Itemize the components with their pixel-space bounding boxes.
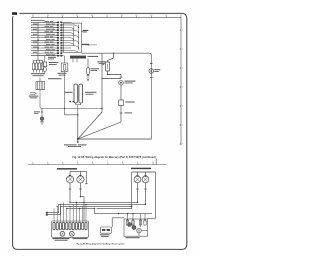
wire	[31, 34, 57, 36]
pin drop wire	[82, 206, 84, 222]
diagonal tie wire	[75, 51, 79, 53]
label	[100, 234, 110, 235]
diagonal tie wire	[71, 38, 74, 39]
svg-text:14: 14	[62, 15, 64, 17]
fuse link feed	[112, 218, 124, 227]
svg-text:9: 9	[137, 162, 138, 164]
svg-text:2: 2	[182, 49, 183, 51]
terminal nubs	[69, 175, 71, 177]
wire	[31, 21, 57, 23]
junction dot	[77, 138, 79, 140]
svg-text:20: 20	[150, 15, 152, 17]
wire	[76, 103, 81, 115]
label dimmer switch	[73, 238, 88, 239]
switch wiper	[137, 228, 142, 233]
wire drops	[137, 183, 139, 203]
svg-text:3: 3	[47, 162, 48, 164]
wires below bank	[33, 70, 35, 73]
wire	[62, 24, 74, 26]
wire code label	[46, 43, 51, 46]
pin drop wire	[69, 206, 71, 222]
wire	[62, 42, 71, 44]
connector pin pair	[57, 55, 59, 57]
connector body box	[64, 23, 82, 52]
pin drop wire	[66, 208, 68, 222]
wire	[62, 27, 71, 29]
bus wire 4	[66, 207, 95, 209]
junction dot	[37, 40, 39, 42]
RH headlamp label	[131, 168, 151, 169]
connector ticks	[69, 188, 72, 190]
wire	[62, 29, 74, 31]
wire	[39, 90, 41, 96]
wire to seat assembly	[31, 55, 64, 57]
loop wire	[102, 78, 122, 80]
wire code label	[45, 41, 50, 44]
feed wire exit with arrow	[82, 44, 98, 46]
svg-text:2: 2	[32, 162, 33, 164]
switch box S2	[119, 100, 124, 106]
headlamp switch box	[124, 219, 148, 236]
svg-text:4: 4	[62, 162, 63, 164]
relay feed	[108, 53, 114, 62]
svg-text:5: 5	[182, 106, 183, 108]
inner bus vertical	[78, 25, 80, 51]
diagonal tie wire	[75, 30, 79, 32]
diagonal tie wire	[71, 33, 74, 34]
arrow terminal	[87, 79, 89, 81]
bottom column ruler	[28, 159, 166, 165]
wire	[31, 37, 57, 39]
terminal pins	[126, 220, 128, 225]
arrow terminal	[77, 141, 79, 143]
wire	[62, 44, 74, 46]
connector pin pair	[57, 24, 59, 26]
switch terminal pin	[66, 222, 68, 229]
connector tick	[150, 77, 153, 79]
contact rotor R1	[60, 231, 65, 236]
connector pin pair	[57, 47, 59, 49]
pin drop wire	[63, 202, 65, 222]
junction dot	[64, 108, 65, 109]
wire	[62, 50, 74, 52]
wire	[31, 50, 57, 52]
label turn signal switch	[53, 238, 70, 239]
wire	[31, 39, 57, 41]
svg-text:7: 7	[107, 162, 108, 164]
wire	[87, 74, 89, 79]
connector pin pair	[57, 42, 59, 44]
wire code label	[45, 20, 50, 23]
diagonal tie wire	[71, 43, 74, 44]
junction dot	[113, 53, 114, 54]
ground label	[64, 144, 77, 145]
contact rotor R2	[69, 231, 74, 236]
pin drop wire	[56, 206, 58, 222]
svg-text:6: 6	[92, 162, 93, 164]
wire code label	[46, 38, 51, 41]
wire	[41, 109, 43, 117]
pin drop wire	[53, 208, 55, 222]
svg-text:22: 22	[180, 15, 182, 17]
wire	[31, 29, 57, 31]
pin drop wire	[79, 208, 81, 222]
page number 944	[12, 12, 17, 15]
wire	[31, 47, 57, 49]
connector pin pair	[57, 52, 59, 54]
connector pin pair	[57, 32, 59, 34]
lamp L1	[149, 69, 154, 74]
connector pin pair	[57, 22, 59, 24]
label	[31, 73, 45, 74]
diagonal tie wire	[71, 28, 74, 29]
bus junction dots	[69, 202, 70, 203]
wire code label	[45, 51, 50, 54]
connector ticks	[136, 188, 139, 190]
wire	[62, 47, 71, 49]
right row ruler	[180, 18, 181, 145]
wire	[31, 24, 57, 26]
connector pin pair	[57, 50, 59, 52]
svg-text:Fig. 12-85. Wiring diagram for: Fig. 12-85. Wiring diagram for headlamp …	[77, 243, 125, 246]
diagonal tie wire	[71, 22, 74, 23]
lamp L2	[40, 117, 44, 121]
svg-text:Fig. 12-84. Wiring diagram for: Fig. 12-84. Wiring diagram for Mercury (…	[72, 155, 155, 159]
junction dot	[37, 47, 39, 49]
diagonal tie wire	[75, 35, 79, 37]
in-line connector bar	[70, 56, 86, 59]
svg-text:944: 944	[12, 12, 17, 16]
switch terminal pin	[59, 222, 61, 229]
svg-text:18: 18	[121, 15, 123, 17]
RH headlamp lo-beam B4	[142, 176, 149, 183]
wire code label	[45, 25, 50, 28]
connector pin pair	[57, 29, 59, 31]
connector tick	[120, 76, 123, 78]
connector pin pair	[57, 45, 59, 47]
wire	[87, 59, 89, 68]
wire code label	[46, 48, 51, 51]
circuit breaker CB1	[64, 56, 66, 63]
wire code label	[46, 53, 51, 56]
wire	[62, 34, 74, 36]
svg-text:12: 12	[32, 15, 34, 17]
LH headlamp hi-beam B1	[66, 176, 73, 183]
svg-text:1: 1	[182, 30, 183, 32]
switch terminal pin	[56, 222, 58, 229]
battery feed dashes	[30, 91, 35, 93]
connector tick	[41, 111, 44, 113]
connector pin pair	[57, 27, 59, 29]
connector pin pair	[57, 37, 59, 39]
wire drops	[69, 183, 71, 202]
sub-harness left edge	[101, 53, 103, 112]
connector tick	[150, 62, 153, 64]
diagonal tie wire	[75, 25, 79, 27]
svg-text:7: 7	[182, 144, 183, 146]
switch terminal pin	[79, 222, 81, 229]
inner bus vertical	[73, 26, 75, 46]
svg-text:19: 19	[136, 15, 138, 17]
wire code label	[45, 35, 50, 38]
connector pin pair	[57, 39, 59, 41]
svg-text:6: 6	[182, 125, 183, 127]
motor M3	[119, 80, 124, 85]
svg-text:17: 17	[106, 15, 108, 17]
ground G1	[40, 121, 44, 125]
pin drop wire	[85, 204, 87, 222]
svg-text:15: 15	[76, 15, 78, 17]
switch terminal pin	[85, 222, 87, 229]
switch bank wires	[33, 60, 35, 63]
wire top bar	[70, 171, 86, 183]
LH headlamp label	[57, 168, 77, 169]
pill terminal dots	[69, 101, 71, 103]
wire code label	[46, 23, 51, 26]
wire	[31, 32, 57, 34]
switch terminal pin	[69, 222, 71, 229]
label	[29, 96, 39, 97]
feeder to connector	[48, 204, 59, 212]
relay K1	[44, 56, 46, 62]
wire	[31, 55, 57, 57]
dimmer switch body	[52, 221, 89, 237]
pin drop wire	[72, 204, 74, 222]
feeder from RH stub	[148, 217, 156, 219]
pin drop wire	[75, 202, 77, 222]
switch terminal pin	[63, 222, 65, 229]
seat motor M2 twin windings	[74, 84, 83, 103]
wire	[31, 44, 57, 46]
svg-text:8: 8	[122, 162, 123, 164]
switch terminal pin	[75, 222, 77, 229]
branch to right cluster	[95, 208, 153, 213]
svg-text:3: 3	[182, 68, 183, 70]
wire code label	[46, 33, 51, 36]
top column ruler	[31, 17, 181, 19]
wire	[31, 42, 57, 44]
wire	[108, 71, 122, 78]
svg-text:13: 13	[47, 15, 49, 17]
wire from stack	[37, 56, 39, 61]
junction vertical wire	[37, 22, 39, 55]
svg-text:10: 10	[152, 162, 154, 164]
wire	[62, 39, 74, 41]
feed wire exit	[82, 30, 84, 32]
wire code label	[46, 28, 51, 31]
wire code label	[45, 46, 50, 49]
bus wire 3	[61, 206, 132, 208]
harness header label	[31, 20, 45, 21]
svg-text:16: 16	[91, 15, 93, 17]
switch contact	[128, 223, 132, 227]
wire	[31, 52, 57, 54]
label	[83, 30, 89, 31]
switch terminal pin	[82, 222, 84, 229]
wire to connector block	[39, 78, 41, 82]
bus wire B-hi	[81, 197, 85, 221]
bus wire 2	[59, 203, 146, 205]
wire	[62, 37, 71, 39]
wire	[31, 27, 57, 29]
connector pin pair	[57, 34, 59, 36]
switch terminal pin	[53, 222, 55, 229]
relay K2	[106, 62, 110, 71]
terminal nubs	[136, 175, 138, 177]
wire	[62, 32, 71, 34]
svg-text:21: 21	[165, 15, 167, 17]
wire	[77, 115, 79, 139]
pin drop wire	[59, 204, 61, 222]
LH headlamp lo-beam B2	[77, 176, 84, 183]
page border frame	[13, 13, 187, 249]
pointer arrow	[103, 64, 105, 65]
ground bus fan	[78, 112, 102, 139]
battery connector T1	[46, 212, 48, 214]
wire	[62, 21, 71, 23]
motor M1	[43, 68, 47, 72]
fuse link box F2	[101, 227, 112, 233]
svg-text:4: 4	[182, 87, 183, 89]
ground stub	[77, 139, 79, 142]
bar stub wires	[73, 59, 77, 63]
wire label	[48, 57, 56, 58]
main feed bus	[82, 53, 152, 139]
fuse F1	[87, 68, 90, 75]
wire	[34, 59, 43, 61]
bus wire 1	[70, 201, 138, 203]
switch terminal pin	[72, 222, 74, 229]
svg-text:5: 5	[77, 162, 78, 164]
ground distribution wire	[40, 96, 102, 109]
diagonal tie wire	[75, 45, 79, 47]
diagonal tie wire	[75, 40, 79, 42]
wire top bar	[132, 172, 156, 218]
wire code label	[45, 30, 50, 33]
seat switch bank S1	[32, 63, 34, 70]
RH headlamp hi-beam B3	[134, 176, 141, 183]
multi-pin connector block	[36, 82, 45, 90]
connector tick	[120, 112, 123, 114]
connector tick	[87, 75, 90, 77]
wire drops into switch	[127, 214, 129, 223]
